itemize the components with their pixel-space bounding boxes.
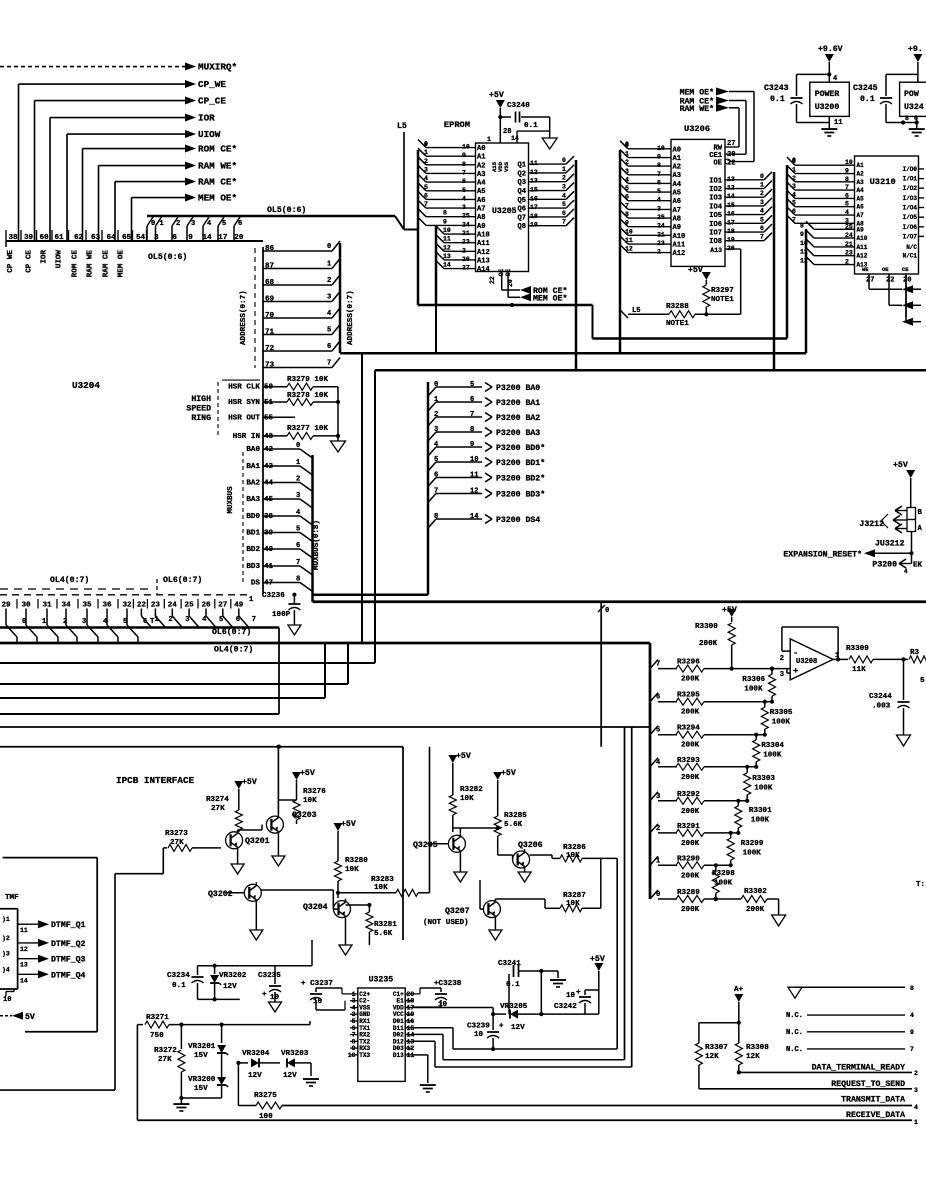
wire UIOW (67, 133, 185, 135)
svg-text:R3291: R3291 (677, 823, 700, 831)
svg-text:4: 4 (207, 220, 212, 228)
svg-text:6: 6 (424, 192, 428, 199)
wire x429 riser (429, 747, 431, 893)
svg-text:P3200 BA2: P3200 BA2 (496, 414, 540, 423)
svg-text:39: 39 (264, 530, 274, 538)
svg-text:R3293: R3293 (677, 757, 700, 765)
svg-text:20: 20 (727, 151, 736, 159)
svg-text:P3200 DS4: P3200 DS4 (496, 516, 540, 525)
svg-text:MEM OE: MEM OE (118, 250, 126, 278)
svg-text:11: 11 (625, 237, 633, 244)
svg-text:VR3202: VR3202 (219, 972, 247, 980)
svg-text:A12: A12 (673, 250, 686, 258)
svg-text:14: 14 (470, 513, 479, 521)
svg-text:36: 36 (102, 602, 112, 610)
svg-text:RAM WE*: RAM WE* (198, 161, 237, 172)
signal arrow 5V left (0, 1015, 12, 1017)
svg-text:7: 7 (327, 360, 331, 368)
svg-text:1: 1 (625, 151, 629, 158)
svg-text:4: 4 (656, 759, 661, 767)
ground Q3204 (345, 920, 347, 946)
svg-text:+5V: +5V (489, 91, 504, 100)
svg-text:MEM OE*: MEM OE* (680, 88, 714, 98)
svg-text:8: 8 (434, 513, 438, 521)
svg-text:)1: )1 (2, 916, 10, 923)
svg-text:3: 3 (760, 199, 764, 206)
svg-text:A9: A9 (477, 223, 486, 231)
svg-text:9: 9 (443, 218, 447, 225)
svg-text:OE: OE (713, 160, 722, 168)
svg-text:D13: D13 (393, 1052, 404, 1059)
svg-text:)3: )3 (2, 951, 10, 958)
svg-text:U324: U324 (904, 103, 924, 112)
svg-text:14: 14 (443, 262, 451, 269)
svg-text:OL6(0:7): OL6(0:7) (212, 627, 251, 637)
svg-text:11: 11 (834, 119, 843, 127)
svg-text:A3: A3 (477, 171, 486, 179)
svg-text:REQUEST_TO_SEND: REQUEST_TO_SEND (831, 1080, 905, 1089)
svg-text:29: 29 (1, 602, 11, 610)
resistor R3299 100K (730, 833, 732, 838)
svg-text:Q3205: Q3205 (413, 841, 438, 850)
svg-text:T:: T: (916, 881, 925, 889)
svg-text:MEM OE*: MEM OE* (533, 294, 567, 304)
svg-text:UIOW: UIOW (56, 250, 64, 269)
svg-text:A0: A0 (477, 145, 486, 153)
svg-text:HSR OUT: HSR OUT (228, 414, 260, 422)
wire RAM CE* (115, 181, 185, 183)
svg-text:200K: 200K (681, 676, 700, 684)
resistor R3309 11K (849, 656, 873, 663)
wire trunk x601 tagged 0 (600, 602, 602, 747)
svg-text:100K: 100K (754, 785, 773, 793)
svg-text:1: 1 (160, 220, 164, 228)
svg-text:1: 1 (327, 261, 331, 269)
svg-text:7: 7 (792, 216, 796, 223)
svg-text:(NOT USED): (NOT USED) (423, 919, 469, 927)
svg-text:I/O3: I/O3 (903, 195, 918, 202)
wire opamp +input (787, 668, 790, 670)
svg-text:CP CE: CP CE (26, 250, 34, 273)
OL5 bus wire 2 (171, 226, 173, 241)
signal arrow MEM OE* (508, 296, 520, 298)
svg-text:14: 14 (20, 977, 28, 984)
svg-text:Q2: Q2 (517, 170, 526, 178)
svg-text:6: 6 (327, 343, 331, 351)
svg-text:5.6K: 5.6K (374, 930, 393, 938)
svg-text:10: 10 (443, 227, 451, 234)
svg-text:C3242: C3242 (554, 1003, 577, 1011)
svg-text:N.C.: N.C. (786, 1029, 803, 1037)
svg-text:3: 3 (780, 671, 784, 679)
svg-text:P3200 BD0*: P3200 BD0* (496, 443, 545, 453)
svg-text:49: 49 (234, 602, 244, 610)
svg-text:OL4(0:7): OL4(0:7) (50, 575, 89, 585)
svg-text:HIGH: HIGH (191, 395, 211, 404)
svg-text:1: 1 (760, 182, 764, 189)
svg-text:1: 1 (914, 1119, 918, 1126)
svg-text:BD2: BD2 (246, 546, 260, 554)
svg-text:IO2: IO2 (709, 186, 722, 194)
IC U3204 top edge (6, 240, 263, 242)
P3200 branch BD2* (428, 478, 436, 487)
wire ipcb box right (402, 747, 404, 940)
signal arrow ROM CE* (502, 289, 520, 291)
svg-text:R3289: R3289 (677, 889, 700, 897)
wire hsr tie (337, 387, 339, 436)
svg-text:100K: 100K (763, 752, 782, 760)
svg-text:7: 7 (252, 616, 256, 624)
svg-text:7: 7 (656, 661, 660, 669)
U3204 bottom dashed edge (0, 594, 250, 596)
svg-text:A0: A0 (673, 146, 682, 154)
svg-text:Q1: Q1 (517, 162, 526, 170)
signal arrow IOR (185, 114, 196, 122)
OL5 bus wire 5 (217, 226, 219, 241)
svg-text:1: 1 (42, 618, 46, 626)
svg-text:U3208: U3208 (796, 658, 817, 666)
svg-text:27K: 27K (211, 805, 225, 813)
svg-text:8: 8 (910, 985, 914, 992)
ground Q3202 (255, 903, 257, 930)
svg-text:5: 5 (424, 184, 428, 191)
svg-text:0.1: 0.1 (506, 981, 520, 989)
svg-text:1: 1 (562, 166, 566, 173)
svg-text:10: 10 (3, 996, 12, 1004)
svg-text:0: 0 (792, 157, 796, 164)
svg-text:C3245: C3245 (853, 84, 878, 93)
svg-text:2: 2 (625, 159, 629, 166)
svg-text:200K: 200K (681, 774, 700, 782)
svg-text:200K: 200K (681, 709, 700, 717)
svg-text:+9.6V: +9.6V (818, 45, 843, 54)
svg-text:Q3201: Q3201 (245, 837, 270, 846)
svg-text:IO8: IO8 (709, 238, 722, 246)
svg-text:R3294: R3294 (677, 725, 700, 733)
svg-text:R3300: R3300 (695, 623, 718, 631)
svg-text:I/O0: I/O0 (903, 166, 918, 173)
svg-text:12: 12 (800, 258, 808, 265)
svg-text:7: 7 (562, 219, 566, 226)
wire trunk y714 (0, 713, 279, 715)
svg-text:50: 50 (264, 384, 274, 392)
svg-text:HSR CLK: HSR CLK (228, 384, 260, 392)
svg-text:Q3202: Q3202 (208, 890, 233, 899)
svg-text:-: - (793, 648, 798, 658)
resistor R3281 5.6K (346, 904, 370, 906)
svg-text:A3: A3 (857, 179, 865, 186)
power +5V R3274 (234, 781, 243, 789)
capacitor C3240 0.1 (500, 116, 511, 118)
svg-text:Q3: Q3 (517, 179, 526, 187)
svg-text:+5V: +5V (242, 778, 257, 787)
resistor R3302 200K (704, 898, 741, 900)
resistor R3296 200K (650, 660, 658, 669)
svg-text:7: 7 (910, 1046, 914, 1053)
svg-text:DATA_TERMINAL_READY: DATA_TERMINAL_READY (812, 1063, 905, 1072)
svg-text:RAM WE: RAM WE (87, 250, 95, 278)
svg-text:10: 10 (625, 228, 633, 235)
svg-text:15V: 15V (194, 1052, 208, 1060)
svg-text:5: 5 (562, 201, 566, 208)
svg-text:R3282: R3282 (460, 786, 483, 794)
ground hsr (337, 436, 339, 441)
svg-text:10: 10 (566, 992, 576, 1000)
svg-text:VR3203: VR3203 (281, 1050, 309, 1058)
svg-text:0.1: 0.1 (524, 122, 538, 130)
svg-text:R3307: R3307 (705, 1044, 728, 1052)
svg-text:5: 5 (434, 456, 438, 464)
svg-text:3: 3 (327, 294, 331, 302)
svg-text:13: 13 (443, 253, 451, 260)
svg-text:4: 4 (296, 509, 301, 517)
wire rail x624 (624, 727, 626, 1060)
P3200 branch BA0 (428, 387, 436, 396)
P3200 branch BA3 (428, 432, 436, 441)
svg-text:100P: 100P (272, 611, 291, 619)
svg-text:J3212: J3212 (859, 520, 884, 529)
svg-text:N/C1: N/C1 (903, 253, 918, 260)
svg-text:Q5: Q5 (517, 197, 526, 205)
svg-text:8: 8 (905, 115, 909, 122)
svg-text:3: 3 (296, 492, 300, 500)
wire bus OL6 trunk (0, 626, 279, 629)
svg-text:100K: 100K (743, 850, 762, 858)
svg-text:L5: L5 (397, 122, 407, 131)
svg-text:10: 10 (313, 998, 323, 1006)
wire trunk y370 (375, 369, 926, 372)
svg-text:4: 4 (434, 441, 439, 449)
svg-text:12K: 12K (705, 1053, 719, 1061)
svg-text:R3306: R3306 (742, 676, 765, 684)
svg-text:R3279 10K: R3279 10K (287, 376, 328, 384)
ground R3272 (173, 1103, 189, 1105)
svg-text:MEM OE*: MEM OE* (198, 193, 237, 204)
svg-text:0: 0 (656, 891, 660, 899)
IC U3204 right edge (262, 247, 264, 594)
svg-text:.003: .003 (872, 703, 891, 711)
svg-text:TX3: TX3 (359, 1052, 370, 1059)
svg-text:U3200: U3200 (815, 103, 840, 112)
svg-text:IO4: IO4 (709, 203, 723, 211)
svg-text:63: 63 (91, 234, 101, 242)
resistor R3294 200K (650, 726, 658, 735)
svg-text:R3: R3 (910, 649, 920, 657)
svg-text:6: 6 (562, 210, 566, 217)
OL5 bus wire 1 (155, 226, 157, 241)
svg-text:SPEED: SPEED (186, 405, 211, 414)
bus U3205 data out (575, 160, 578, 370)
transistor Q3202 (244, 884, 261, 901)
svg-text:TRANSMIT_DATA: TRANSMIT_DATA (841, 1096, 905, 1105)
svg-text:BD0: BD0 (246, 513, 260, 521)
svg-text:200K: 200K (681, 808, 700, 816)
svg-text:4: 4 (792, 191, 796, 198)
ground Q3201 (237, 851, 239, 864)
svg-text:42: 42 (264, 446, 274, 454)
svg-text:C3235: C3235 (258, 972, 281, 980)
svg-text:A10: A10 (673, 233, 686, 241)
svg-text:R3308: R3308 (746, 1044, 769, 1052)
svg-text:R3288: R3288 (666, 303, 689, 311)
resistor R3295 200K (650, 693, 658, 702)
svg-text:R3287: R3287 (563, 892, 586, 900)
svg-text:3: 3 (792, 183, 796, 190)
svg-text:30: 30 (21, 602, 31, 610)
resistor R3293 200K (650, 758, 658, 767)
svg-text:+ C3237: + C3237 (301, 980, 333, 988)
bus U3210 upper input (786, 165, 789, 339)
svg-text:47: 47 (264, 580, 274, 588)
ground rs232 top (795, 986, 905, 988)
svg-text:73: 73 (265, 362, 275, 370)
svg-text:A7: A7 (857, 212, 865, 219)
svg-text:C3239: C3239 (467, 1023, 490, 1031)
svg-text:R3274: R3274 (206, 796, 229, 804)
ground Q3207 (494, 920, 496, 931)
ground Q3203 (277, 835, 279, 856)
svg-text:3: 3 (424, 166, 428, 173)
svg-text:51: 51 (264, 399, 274, 407)
svg-text:27K: 27K (158, 1056, 172, 1064)
svg-text:A9: A9 (857, 226, 865, 233)
svg-text:6: 6 (656, 694, 660, 702)
svg-text:5: 5 (760, 216, 764, 223)
svg-text:A2: A2 (477, 162, 486, 170)
svg-text:8: 8 (443, 210, 447, 217)
svg-text:NOTE1: NOTE1 (666, 320, 689, 328)
svg-text:22: 22 (489, 276, 496, 284)
svg-text:I/O2: I/O2 (903, 185, 918, 192)
svg-text:32: 32 (122, 602, 132, 610)
svg-text:27: 27 (218, 602, 228, 610)
svg-text:P3200 BA3: P3200 BA3 (496, 429, 540, 438)
power +5V R3285 (493, 772, 502, 780)
svg-text:VR3205: VR3205 (500, 1003, 528, 1011)
svg-text:A4: A4 (673, 181, 682, 189)
svg-text:Q4: Q4 (517, 188, 526, 196)
P3200 branch DS4 (428, 519, 436, 528)
svg-text:ADDRESS(0:7): ADDRESS(0:7) (347, 290, 355, 345)
svg-text:22: 22 (137, 602, 147, 610)
svg-text:P3200 BD2*: P3200 BD2* (496, 474, 545, 484)
svg-text:+: + (576, 989, 581, 997)
svg-text:I/O4: I/O4 (903, 205, 918, 212)
svg-text:MUXBUS: MUXBUS (227, 486, 235, 514)
svg-text:6: 6 (792, 208, 796, 215)
svg-text:38: 38 (9, 234, 19, 242)
svg-text:+: + (262, 991, 267, 999)
svg-text:C3234: C3234 (167, 972, 190, 980)
svg-text:VR3204: VR3204 (242, 1050, 270, 1058)
svg-text:70: 70 (265, 312, 275, 320)
svg-text:Q3207: Q3207 (445, 907, 470, 916)
wire VDD line (413, 1007, 493, 1009)
transistor Q3205 (448, 835, 465, 852)
svg-text:23: 23 (151, 602, 161, 610)
resistor R3278 10K (263, 401, 287, 403)
svg-text:2: 2 (760, 190, 764, 197)
wire D02 route (413, 1040, 435, 1042)
svg-text:R3283: R3283 (371, 876, 394, 884)
svg-text:Q3204: Q3204 (303, 903, 328, 912)
svg-text:3: 3 (656, 793, 660, 801)
svg-text:6: 6 (760, 225, 764, 232)
svg-text:R3302: R3302 (744, 888, 767, 896)
svg-text:A8: A8 (673, 216, 682, 224)
P3200 branch BD3* (428, 494, 436, 503)
svg-text:ROM CE*: ROM CE* (198, 144, 237, 155)
svg-text:5: 5 (222, 220, 226, 228)
svg-text:20: 20 (903, 277, 912, 285)
svg-text:POW: POW (904, 90, 919, 99)
svg-text:9: 9 (188, 234, 193, 242)
svg-text:3: 3 (185, 616, 189, 624)
svg-text:26: 26 (201, 602, 211, 610)
svg-text:BA1: BA1 (246, 463, 260, 471)
svg-text:R3280: R3280 (345, 857, 368, 865)
svg-text:R3276: R3276 (303, 788, 326, 796)
svg-text:41: 41 (264, 563, 274, 571)
svg-text:10K: 10K (345, 866, 359, 874)
svg-text:R3290: R3290 (677, 855, 700, 863)
IC U3205 EPROM (476, 143, 529, 272)
svg-text:P3200 BA1: P3200 BA1 (496, 399, 540, 408)
resistor R3305 100K (764, 702, 766, 708)
svg-text:54: 54 (136, 234, 146, 242)
svg-text:IO1: IO1 (709, 177, 722, 185)
svg-text:10: 10 (800, 240, 808, 247)
svg-text:C3240: C3240 (507, 102, 530, 110)
svg-text:I/O7: I/O7 (903, 233, 918, 240)
svg-text:6: 6 (296, 542, 300, 550)
svg-text:0: 0 (625, 141, 629, 148)
svg-text:44: 44 (264, 480, 274, 488)
svg-text:7: 7 (296, 559, 300, 567)
wire HSR OUT stub (263, 416, 295, 418)
svg-text:+5V: +5V (300, 769, 315, 778)
svg-text:3: 3 (154, 234, 159, 242)
ground U3205 top (549, 117, 551, 138)
ground Q3205 (459, 854, 461, 872)
svg-text:A8: A8 (477, 214, 486, 222)
bracket address (254, 248, 256, 368)
svg-text:12V: 12V (248, 1072, 262, 1080)
svg-text:7: 7 (760, 234, 764, 241)
svg-text:3: 3 (191, 220, 195, 228)
svg-text:3: 3 (82, 618, 86, 626)
wire vr3204 riser (237, 1063, 239, 1106)
svg-text:Q8: Q8 (517, 223, 526, 231)
svg-text:BA2: BA2 (246, 480, 260, 488)
svg-text:4: 4 (327, 310, 332, 318)
ground Q3206 (524, 870, 526, 872)
svg-text:100K: 100K (714, 880, 733, 888)
svg-text:4: 4 (625, 176, 629, 183)
svg-text:B: B (918, 509, 923, 517)
transistor Q3204 (334, 901, 351, 918)
svg-text:IOR: IOR (198, 113, 215, 124)
svg-text:R3292: R3292 (677, 791, 700, 799)
bus ADDRESS(0:7) (339, 243, 342, 353)
svg-text:A1: A1 (857, 162, 865, 169)
svg-text:22: 22 (886, 277, 895, 285)
svg-text:2: 2 (780, 655, 784, 663)
svg-text:VSS: VSS (503, 161, 510, 172)
svg-text:IO6: IO6 (709, 221, 722, 229)
svg-text:VR3200: VR3200 (188, 1076, 216, 1084)
svg-text:CP_WE: CP_WE (198, 79, 226, 90)
